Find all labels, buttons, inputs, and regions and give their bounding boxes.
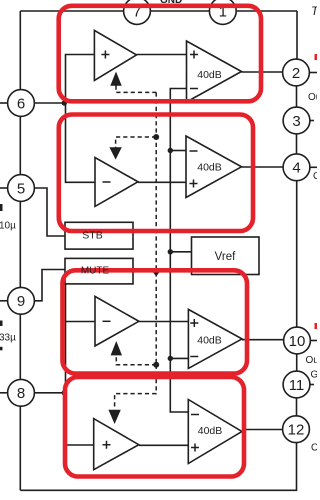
pin 9 bbox=[8, 287, 35, 314]
wire ch2 buffer out to power amp bbox=[138, 181, 186, 183]
svg-text:O: O bbox=[313, 171, 317, 182]
wire junction down to ch2 input bbox=[66, 103, 96, 182]
wire dashed ch3 branch bbox=[116, 355, 156, 364]
wire pin5 left stub bbox=[0, 187, 8, 189]
wire ch1 output to pin2 bbox=[242, 71, 284, 73]
pin 7 bbox=[124, 0, 151, 24]
wire ch4 input branch bbox=[66, 444, 94, 446]
wire dashed ch1 arrow stem bbox=[116, 86, 156, 93]
label PA3 minus bbox=[190, 356, 198, 358]
op-amp PA4 power amp ch4 40dB bbox=[188, 400, 242, 464]
label PA1 plus bbox=[190, 51, 198, 59]
pin 10 bbox=[284, 327, 311, 354]
op-amp A3 input buffer ch3 bbox=[95, 296, 139, 346]
label left edge smudge 2 bbox=[0, 321, 3, 327]
svg-text:11: 11 bbox=[289, 377, 305, 394]
svg-text:5: 5 bbox=[17, 180, 25, 197]
wire input rail ch3/ch4 bbox=[65, 283, 67, 445]
label PA2 plus bbox=[190, 180, 198, 188]
svg-text:2: 2 bbox=[292, 65, 300, 82]
wire pin11-pin12 bbox=[296, 397, 298, 417]
wire dashed ch2 branch bbox=[116, 137, 157, 148]
pin 1 bbox=[209, 0, 236, 24]
red text remnant right of pin10 bbox=[315, 323, 318, 329]
label PA1 minus bbox=[190, 88, 198, 90]
junction node pin6 input bbox=[62, 100, 67, 105]
op-amp A4 input buffer ch4 bbox=[94, 419, 139, 470]
wire ch3 output to pin10 bbox=[242, 339, 284, 341]
junction node pin8 input bbox=[62, 390, 67, 395]
junction node dashed ch3 bbox=[153, 362, 159, 368]
red annotation box channel 3 bbox=[63, 270, 248, 373]
op-amp PA1 power amp ch1 40dB bbox=[187, 41, 242, 102]
wire ch4 output to pin12 bbox=[242, 429, 283, 431]
label PA4 plus bbox=[191, 444, 199, 452]
wire pin10 right stub bbox=[310, 340, 317, 342]
wire ch3 buffer out to power amp bbox=[139, 321, 189, 323]
label left edge smudge 1 bbox=[0, 204, 3, 211]
wire pin3 right stub bbox=[310, 120, 314, 122]
op-amp A2 input buffer ch2 bbox=[95, 158, 138, 207]
svg-text:40dB: 40dB bbox=[198, 425, 223, 437]
svg-text:O: O bbox=[311, 443, 317, 454]
svg-text:4: 4 bbox=[292, 160, 300, 177]
wire pin8 left stub bbox=[0, 392, 7, 394]
arrow ch1 mute up bbox=[110, 72, 121, 86]
op-amp A1 input buffer ch1 bbox=[94, 30, 136, 80]
wire ch3 input branch bbox=[66, 321, 96, 323]
pin 4 bbox=[283, 154, 310, 181]
svg-text:9: 9 bbox=[17, 293, 25, 310]
svg-text:MUTE: MUTE bbox=[81, 265, 110, 276]
wire pin9 to MUTE box bbox=[35, 270, 66, 301]
svg-text:10: 10 bbox=[289, 333, 306, 350]
pin 6 bbox=[8, 90, 35, 117]
junction node dashed ch2 bbox=[153, 134, 159, 140]
arrow ch4 mute down bbox=[108, 410, 120, 424]
wire dashed main vertical bbox=[155, 92, 157, 364]
wire top border bbox=[20, 10, 297, 12]
label ch3 buffer minus bbox=[103, 320, 111, 322]
pin 3 bbox=[283, 107, 310, 134]
wire ch2 output to pin4 bbox=[242, 166, 284, 168]
wire pin2-pin3 bbox=[296, 85, 298, 108]
wire dashed ch4 branch bbox=[115, 365, 157, 410]
wire ch3 minus input bbox=[170, 357, 188, 359]
svg-text:TD: TD bbox=[311, 4, 317, 18]
wire pin8 to junction bbox=[34, 392, 66, 394]
wire pin2 right stub bbox=[309, 72, 317, 74]
op-amp PA2 power amp ch2 40dB bbox=[186, 136, 242, 198]
wire pin3-pin4 bbox=[296, 133, 298, 155]
MUTE box bbox=[65, 258, 133, 284]
pin 2 bbox=[283, 59, 310, 86]
svg-text:STB: STB bbox=[82, 230, 102, 242]
label PA2 minus bbox=[190, 150, 198, 152]
pin 11 bbox=[283, 371, 310, 398]
wire pin6 to junction bbox=[34, 102, 66, 104]
wire vref tap bbox=[170, 251, 194, 253]
label ch4 buffer plus bbox=[103, 441, 111, 449]
label ch1 buffer plus bbox=[101, 51, 109, 59]
wire pin12-bottom bbox=[296, 442, 298, 490]
svg-text:Vref: Vref bbox=[215, 251, 236, 263]
wire right border top segment bbox=[296, 11, 298, 60]
svg-text:40dB: 40dB bbox=[197, 69, 222, 81]
label PA4 minus bbox=[191, 414, 199, 416]
red annotation box channel 1 bbox=[59, 6, 261, 102]
wire pin10-pin11 bbox=[296, 353, 298, 372]
pin 12 bbox=[283, 416, 310, 443]
svg-text:33µ: 33µ bbox=[0, 333, 16, 344]
svg-text:40dB: 40dB bbox=[197, 334, 222, 346]
junction node ch3 minus bbox=[168, 356, 173, 361]
pin 8 bbox=[8, 379, 35, 406]
wire pin9 left stub bbox=[0, 300, 8, 302]
arrow dashed line mid bbox=[151, 270, 161, 277]
dashed control net bbox=[115, 86, 157, 410]
red annotation box channel 2 bbox=[59, 115, 253, 232]
svg-text:10µ: 10µ bbox=[0, 221, 16, 232]
wire pin11 right stub bbox=[310, 384, 314, 386]
STB box bbox=[65, 222, 133, 249]
red annotation box channel 4 bbox=[65, 377, 244, 477]
red text remnant right of pin2 bbox=[315, 54, 318, 60]
svg-text:Out: Out bbox=[306, 355, 318, 366]
label ch2 buffer minus bbox=[103, 181, 111, 183]
op-amp PA3 power amp ch3 40dB bbox=[188, 309, 242, 368]
wire junction up to ch1 input bbox=[66, 55, 95, 104]
svg-text:12: 12 bbox=[288, 422, 305, 439]
svg-text:Ou: Ou bbox=[308, 92, 317, 103]
svg-text:6: 6 bbox=[17, 95, 25, 112]
wire ch2 minus input bbox=[170, 150, 186, 152]
wire pin4 right stub bbox=[310, 166, 317, 168]
svg-text:GND: GND bbox=[160, 0, 182, 6]
svg-text:3: 3 bbox=[292, 113, 300, 130]
wire ch1 buffer out to power amp bbox=[137, 54, 187, 56]
wire ch4 buffer out to power amp bbox=[139, 444, 189, 446]
pin 5 bbox=[8, 175, 35, 202]
wire bottom border bbox=[20, 489, 297, 491]
svg-text:G: G bbox=[311, 370, 318, 381]
wire pin4-pin10 bbox=[296, 180, 298, 328]
arrow ch2 mute down bbox=[109, 147, 121, 159]
wire pin5 to STB box bbox=[35, 188, 66, 236]
svg-text:8: 8 bbox=[17, 385, 25, 402]
wire pin6 left stub bbox=[0, 102, 8, 104]
Vref box bbox=[192, 237, 260, 275]
label left edge smudge 3 bbox=[0, 347, 3, 351]
wire ch1 minus feedback bbox=[170, 89, 188, 413]
junction node ch2 minus bbox=[168, 148, 173, 153]
junction node vref tap bbox=[168, 249, 173, 254]
svg-text:40dB: 40dB bbox=[197, 162, 222, 174]
arrow ch3 mute up bbox=[111, 341, 122, 355]
wire left border bbox=[19, 11, 21, 490]
label PA3 plus bbox=[190, 319, 198, 327]
